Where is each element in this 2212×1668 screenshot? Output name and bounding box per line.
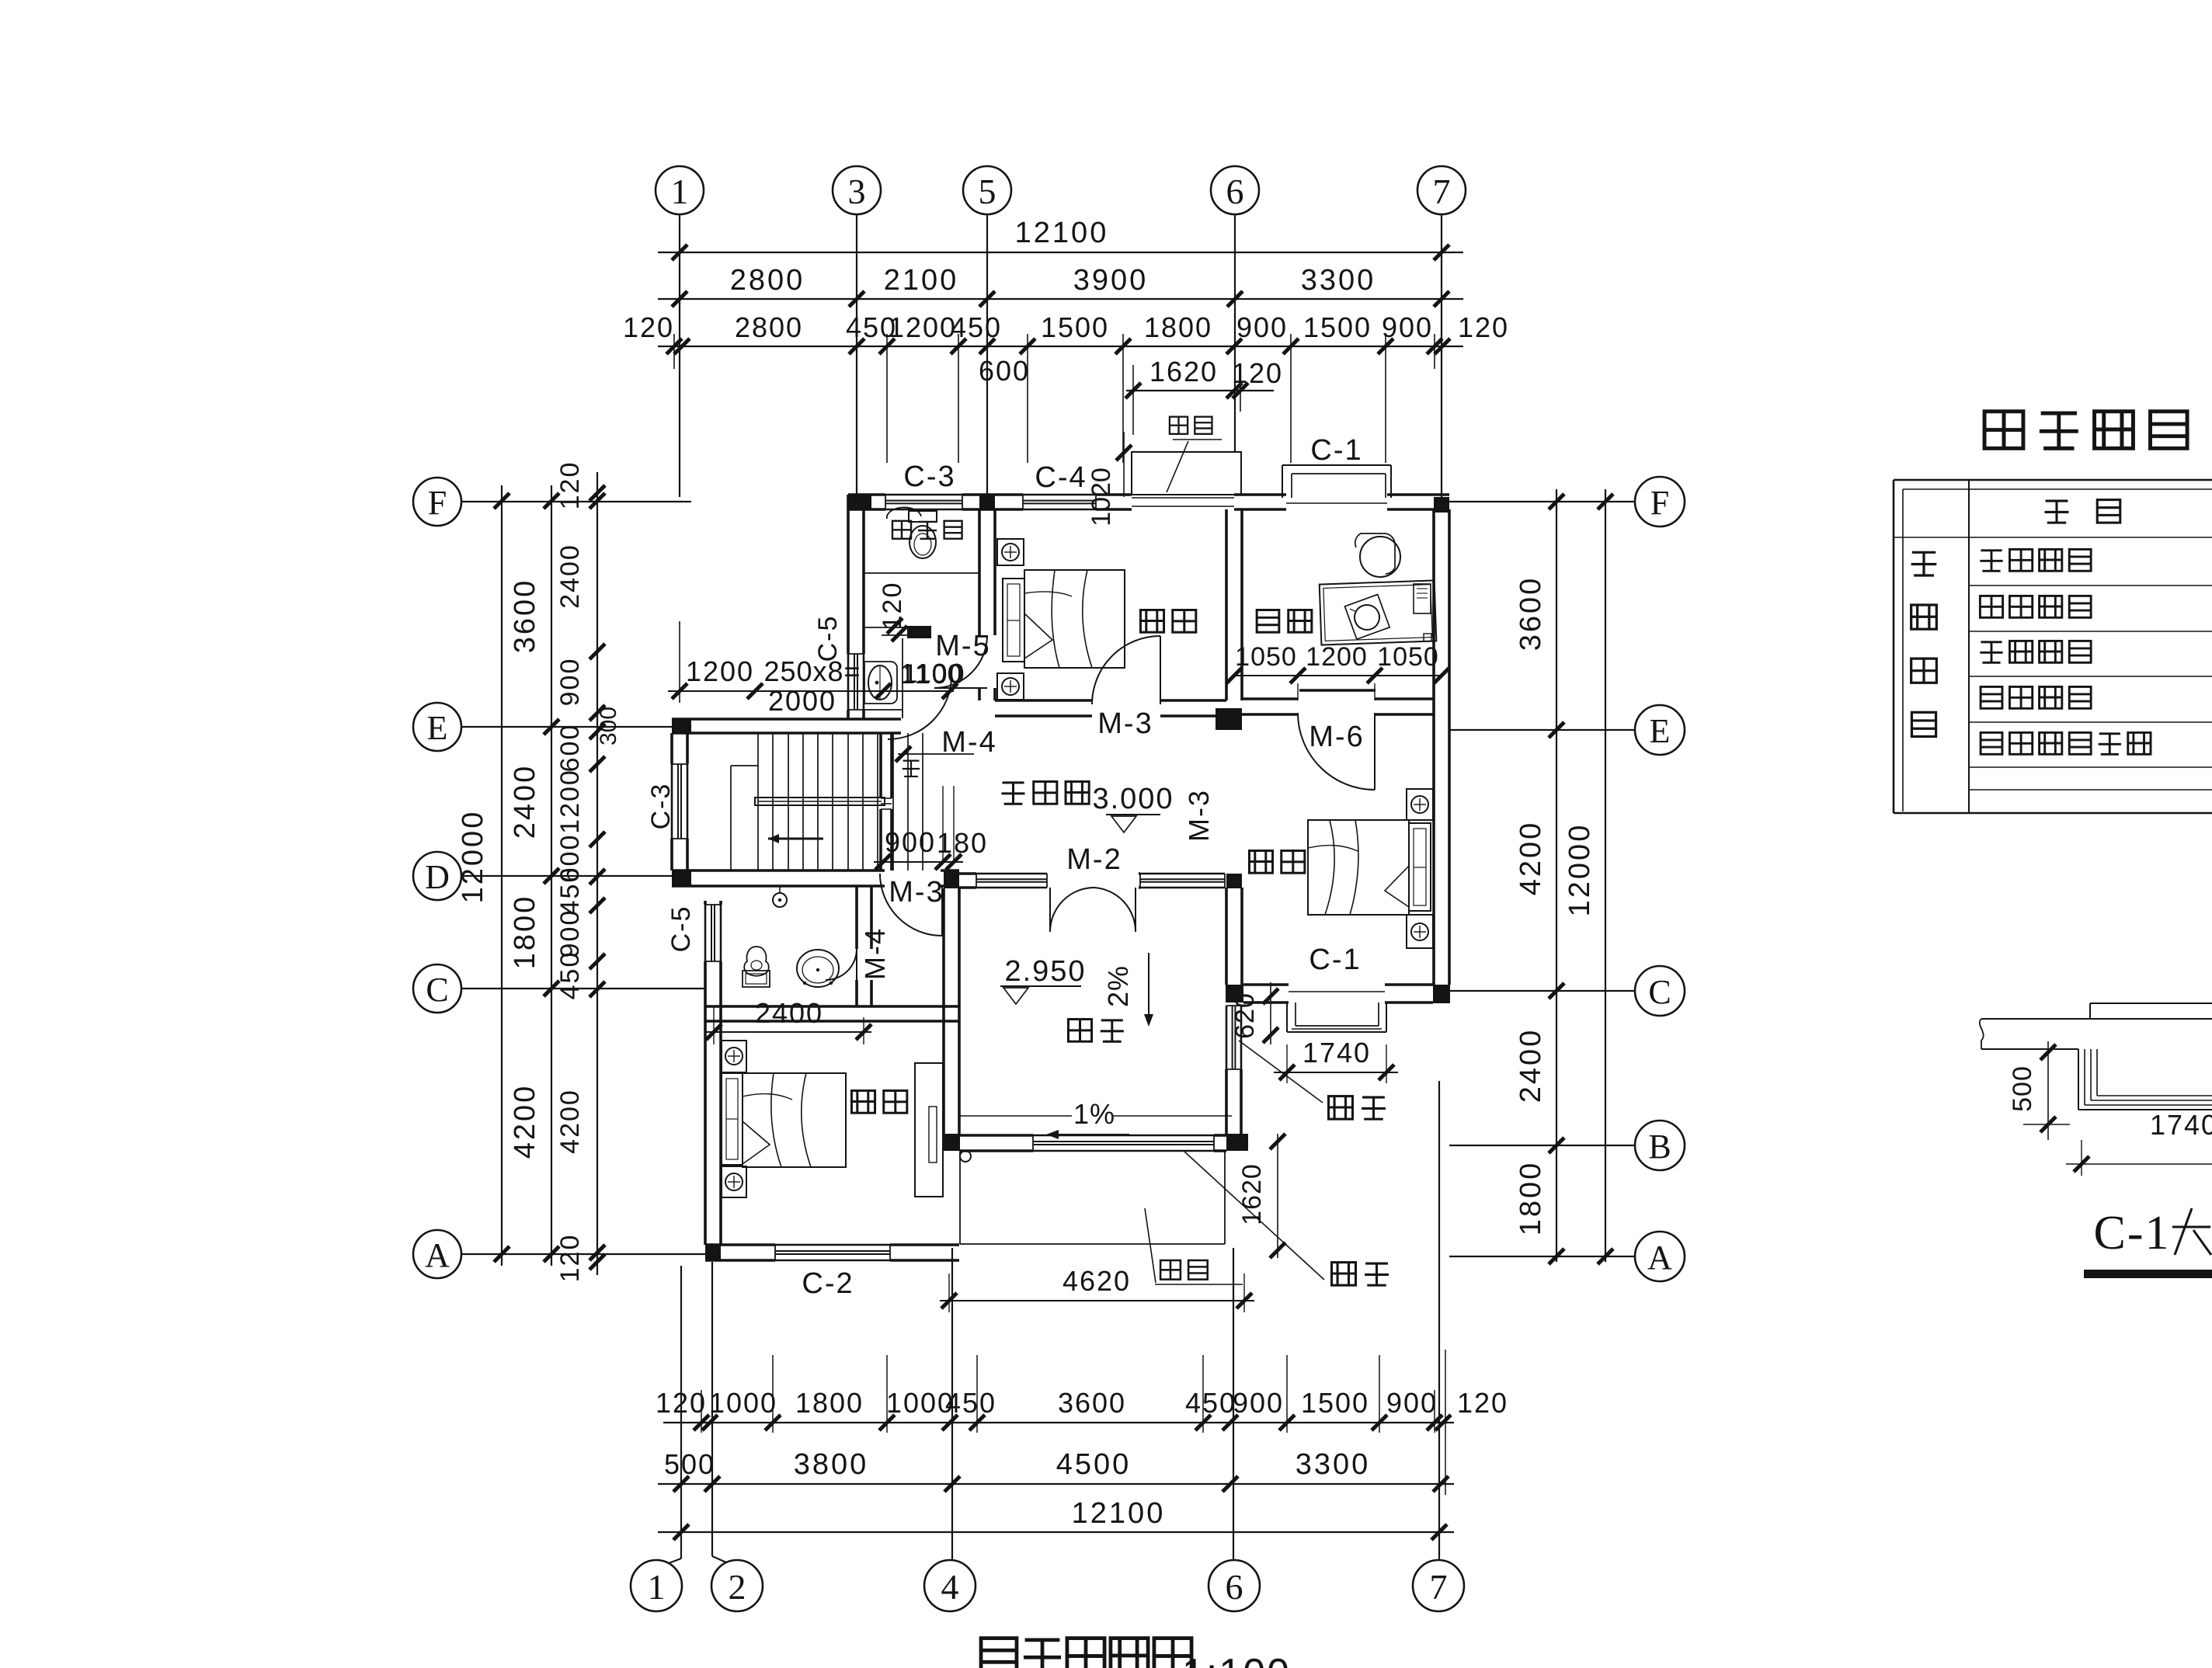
svg-text:2.950: 2.950 [1004,955,1086,988]
svg-text:500: 500 [2008,1065,2037,1112]
svg-text:M-4: M-4 [941,726,996,759]
svg-text:2%: 2% [1102,965,1134,1007]
svg-text:A: A [1647,1239,1672,1277]
top extension verticals [886,334,888,463]
svg-text:M-2: M-2 [1066,843,1122,876]
table left header jianzhubiaozhun vertical [1911,552,1937,575]
svg-text:120: 120 [555,461,585,510]
bedside tables bedroom1 [997,539,1024,565]
svg-text:E: E [1650,712,1671,750]
grid circle 6 top [1211,166,1259,214]
svg-text:450: 450 [555,867,585,916]
svg-text:1:100: 1:100 [1182,1651,1291,1668]
stairs direction arrow [768,838,823,840]
svg-text:1620: 1620 [1149,356,1218,387]
grid circle 2 bottom [711,1560,763,1611]
wall right (axis 7) [1432,509,1435,985]
bedside tables bedroom2 [1407,789,1433,820]
wall study south with M-6 opening [1242,697,1298,700]
bottom short extension verticals [772,1355,774,1433]
table row lines [1969,537,2212,538]
svg-text:300: 300 [596,707,621,745]
door M-2 double french [1049,888,1051,932]
svg-text:A: A [425,1236,450,1274]
door M-6 bedroom2 [1298,713,1375,790]
dim line bottom mid spans [658,1483,1454,1485]
svg-text:M-6: M-6 [1309,721,1364,753]
svg-text:C-3: C-3 [646,783,676,830]
label weishengjian bathroom1 [892,521,911,539]
grid circle F right [1635,477,1685,526]
svg-text:D: D [425,858,450,896]
svg-text:620: 620 [1230,992,1260,1039]
bay window C-1 bottom [1286,1003,1288,1032]
railing label 1 with leader [1239,1041,1323,1103]
sink bathroom2 [743,971,770,987]
label woshi bedroom2 [1249,851,1272,874]
svg-text:1050: 1050 [1377,642,1439,672]
grid leader D [461,875,672,877]
grid leader C [461,988,705,989]
window C-3 top [885,494,962,496]
wall axis6 between bedroom and study [1225,509,1228,700]
door M-4 hallway small [856,949,857,980]
railing label 2 with leader [1184,1152,1324,1280]
canopy bottom outline [959,1151,961,1244]
svg-text:C-1: C-1 [1309,943,1361,976]
detail title da char [2172,1226,2210,1228]
label woshi bedroom3 [851,1091,875,1114]
dim line top axis spans [658,298,1463,300]
wall bedroom3 south (A row) [705,1243,775,1246]
dim 1020 vertical [1123,432,1125,497]
svg-text:250x8=: 250x8= [763,655,861,687]
svg-text:600: 600 [555,724,585,773]
detail break squiggle [1980,1019,1984,1049]
dim 620 vertical [1270,982,1271,1044]
svg-text:F: F [428,484,447,522]
basin bathroom2 [797,950,839,987]
svg-text:1500: 1500 [1301,1387,1369,1419]
detail title underline [2084,1270,2212,1278]
desk study [1320,580,1437,645]
svg-text:120: 120 [623,311,674,343]
detail window frame nest [2078,1049,2079,1110]
wall bathroom2 south / bedroom3 north [705,1005,959,1008]
wall bedroom1 south [995,699,1092,702]
grid circle E right [1635,705,1685,755]
svg-text:2400: 2400 [1515,1028,1547,1103]
grid leader E right [1449,729,1635,731]
svg-text:2400: 2400 [755,997,823,1029]
window C-2 [775,1244,890,1246]
svg-text:2400: 2400 [509,764,541,839]
svg-text:4500: 4500 [1056,1448,1132,1481]
canopy label bottom [1160,1260,1181,1280]
svg-text:4200: 4200 [555,1089,585,1154]
svg-text:2800: 2800 [730,264,805,297]
dim line left 12000 [501,485,503,1266]
window C-4 top [1023,494,1096,496]
wall terrace west / bedroom3 east [942,888,945,1134]
svg-text:180: 180 [937,827,988,859]
grid line 5 [986,214,988,495]
svg-text:1800: 1800 [1144,311,1212,343]
flower pot on desk [1344,595,1389,640]
table row shiyongmianjixishu [1981,732,2002,754]
svg-text:3900: 3900 [1073,264,1149,297]
svg-text:3600: 3600 [509,579,541,654]
svg-text:1740: 1740 [2150,1109,2212,1141]
washbasin vestibule [864,662,897,704]
svg-text:3600: 3600 [1058,1387,1126,1419]
svg-text:4: 4 [941,1567,959,1607]
table row jianzhumianji [1980,642,2002,663]
svg-text:2100: 2100 [884,264,959,297]
table row shiyongmianji [1981,686,2002,708]
svg-text:3: 3 [848,172,866,211]
dim 900 180 near M-3 [874,861,963,863]
grid line 6 [1234,214,1236,452]
label woshi bedroom1 [1140,610,1163,633]
grid leader E [461,726,672,728]
svg-text:3800: 3800 [794,1448,869,1481]
svg-text:4620: 4620 [1063,1265,1131,1297]
dim line top 12100 [658,252,1463,253]
svg-text:C-5: C-5 [666,905,696,953]
grid circle D left [413,852,461,900]
wall terrace south (B row) [960,1134,1033,1137]
svg-text:900: 900 [1236,311,1288,343]
svg-text:1: 1 [671,172,689,211]
dim 1620 vertical right of terrace [1277,1134,1278,1258]
wall terrace east [1225,888,1228,985]
bay window C-1 top [1282,465,1283,498]
table row jidimianji [1980,551,2002,572]
grid circle 6 bottom [1209,1560,1260,1611]
svg-text:120: 120 [555,1234,585,1283]
svg-text:1200: 1200 [555,769,585,834]
dim line right axis spans [1556,489,1557,1262]
wall bedroom2 south (C row) with bay C-1 [1243,983,1289,986]
svg-text:C-1: C-1 [2094,1207,2171,1260]
window C-5 lower left [704,905,707,961]
svg-text:120: 120 [1458,311,1509,343]
svg-text:M-3: M-3 [1097,707,1153,740]
wall partition living west [879,733,882,798]
dim line right 12000 [1605,489,1606,1262]
label xia (down) [903,761,920,777]
grid leader A [461,1253,705,1255]
dim line canopy 1620 [1126,390,1274,391]
svg-text:900: 900 [1233,1387,1284,1419]
svg-text:M-3: M-3 [1183,789,1215,842]
svg-text:4200: 4200 [1515,821,1547,896]
svg-text:1%: 1% [1073,1098,1115,1130]
grid leader F [461,501,691,502]
grid circle F left [413,478,461,526]
svg-text:500: 500 [664,1448,715,1480]
bathroom1 partition lines [864,572,979,574]
wall top F row [848,493,885,496]
desk items [1414,584,1431,613]
grid circle 4 bottom [924,1560,976,1611]
svg-text:1800: 1800 [795,1387,864,1419]
svg-text:450: 450 [945,1387,996,1419]
svg-text:1000: 1000 [886,1387,955,1419]
svg-text:900: 900 [885,826,936,858]
svg-text:12100: 12100 [1072,1497,1166,1530]
toilet bathroom1 [909,511,937,522]
svg-text:7: 7 [1433,172,1451,211]
bottom grid verticals [680,1266,682,1559]
grid circle 1 bottom [631,1560,682,1611]
wall stair south (D row) with M-3 opening [672,869,885,872]
svg-text:12100: 12100 [1015,217,1109,249]
svg-text:1800: 1800 [1515,1161,1547,1236]
grid circle A left [413,1230,461,1278]
window C-5 upper left [847,654,850,710]
svg-text:4200: 4200 [509,1084,541,1159]
label shaitai terrace [1068,1020,1091,1042]
svg-text:12000: 12000 [1563,823,1596,917]
svg-text:120: 120 [656,1387,707,1419]
dim line top detail spans [658,346,1463,347]
svg-text:1500: 1500 [1041,311,1109,343]
svg-text:900: 900 [555,658,585,707]
economic table frame [1894,479,2212,481]
svg-text:3600: 3600 [1515,576,1547,652]
svg-text:2800: 2800 [735,311,803,343]
railing terrace south [1033,1135,1214,1137]
wardrobe bedroom3 [915,1063,943,1197]
svg-text:C: C [1648,973,1671,1011]
cistern arc bathroom1 [887,507,921,519]
detail slab lines [2090,1003,2212,1004]
bedside tables bedroom3 [722,1041,746,1072]
svg-text:B: B [1648,1128,1671,1166]
wall living south (B? row) with windows and M-2 [959,872,976,875]
svg-text:3300: 3300 [1296,1448,1371,1481]
dim line left detail spans [596,472,598,1275]
svg-text:C: C [426,971,448,1009]
grid leader A right [1449,1256,1635,1257]
svg-text:7: 7 [1430,1567,1448,1607]
label shufang study [1257,610,1279,633]
title erceng pingmiantu [981,1638,1017,1668]
bed bedroom2 [1409,823,1431,911]
grid line 7 [1441,214,1442,497]
svg-text:M-3: M-3 [889,876,944,909]
svg-text:6: 6 [1226,172,1244,211]
svg-text:C-2: C-2 [802,1267,854,1300]
window above entrance [1132,497,1234,499]
dim 4620 below canopy [940,1300,1254,1301]
lintel over M-6 [1299,689,1376,692]
dim 2400 bedroom3 [705,1031,871,1033]
wall axis5 bathroom east [978,509,981,635]
grid circle C right [1635,966,1685,1016]
svg-text:120: 120 [1232,357,1283,389]
grid circle E left [413,703,461,751]
grid leader F right [1449,501,1635,502]
window terrace east [1226,1006,1228,1069]
svg-text:E: E [427,709,448,747]
svg-text:1100: 1100 [903,659,962,689]
dim 1200 250x8 2000 1100 [668,690,954,692]
rain pipe circle [960,1151,971,1162]
svg-text:1800: 1800 [509,895,541,970]
table header xiangmu [2045,501,2069,523]
svg-text:2: 2 [729,1567,746,1607]
svg-text:2000: 2000 [768,685,836,717]
svg-text:1200: 1200 [686,655,754,687]
label qijushi living [1001,783,1024,804]
grid circle A right [1635,1232,1685,1281]
dim line bottom detail spans [663,1422,1454,1423]
svg-text:3.000: 3.000 [1092,783,1174,815]
svg-text:1: 1 [648,1567,666,1607]
svg-text:900: 900 [555,909,585,958]
wall bathroom2 east [855,886,858,949]
door M-4 living entry arc [888,676,951,739]
grid line 3 [856,214,857,495]
table row zhandimianji [1980,596,2002,617]
svg-text:600: 600 [979,355,1030,387]
svg-text:5: 5 [979,172,996,211]
svg-text:2400: 2400 [555,544,585,609]
stairs risers [757,733,759,870]
table title zhuyao jingji [1984,412,2023,449]
chair study [1360,537,1400,577]
stairs handrail [755,798,885,805]
grid circle C left [413,964,461,1013]
wall left (axis 3) [847,495,850,654]
slope 1 percent [960,1115,1072,1117]
svg-text:6: 6 [1226,1567,1243,1607]
stair down label line [898,753,974,755]
grid circle 7 bottom [1413,1560,1464,1611]
door M-5 bathroom [934,635,987,688]
grid circle 1 top [656,166,704,214]
svg-text:C-4: C-4 [1035,461,1087,494]
bed bedroom3 [722,1073,743,1165]
window living south west [976,873,1047,875]
svg-text:1050: 1050 [1235,642,1297,672]
detail dim 500 [2047,1041,2049,1140]
svg-text:1620: 1620 [1237,1163,1267,1225]
canopy top box [1132,452,1241,495]
toilet bathroom2 [744,947,769,976]
svg-text:12000: 12000 [457,810,489,904]
door M-3 bedroom1 [1092,636,1160,704]
svg-text:1740: 1740 [1303,1037,1371,1069]
window C-3 left stair [671,764,673,839]
column blocks [848,495,871,510]
dim 1050 1200 1050 study [1234,675,1442,676]
svg-text:M-4: M-4 [859,927,891,980]
shower head bathroom2 [773,893,787,907]
svg-text:1500: 1500 [1303,311,1372,343]
svg-text:C-3: C-3 [903,460,955,493]
wall stair north (E row) [672,718,901,721]
svg-text:1020: 1020 [1087,467,1116,526]
grid circle B right [1635,1121,1685,1170]
svg-text:120: 120 [1457,1387,1508,1419]
grid circle 7 top [1417,166,1466,214]
grid circle 3 top [833,166,881,214]
bed bedroom1 [1003,579,1024,662]
svg-text:900: 900 [1386,1387,1438,1419]
window living south east [1140,873,1225,875]
dim line bottom 12100 [658,1531,1454,1533]
svg-text:120: 120 [878,582,907,631]
grid leader C right [1449,990,1635,992]
svg-text:900: 900 [1382,311,1433,343]
stairs lower flight edge [730,766,732,870]
svg-text:1200: 1200 [889,311,957,343]
svg-text:C-1: C-1 [1310,434,1362,467]
svg-text:3300: 3300 [1301,264,1376,297]
wall lower-left (axis2) [704,901,707,905]
svg-text:1000: 1000 [709,1387,777,1419]
grid circle 5 top [963,166,1011,214]
grid leader B right [1449,1145,1635,1146]
label yupeng top [1170,417,1188,434]
svg-text:F: F [1650,484,1669,522]
dim 1740 bedroom2 bay [1274,1072,1398,1073]
svg-text:1200: 1200 [1306,642,1368,672]
vestibule floor line [864,709,903,711]
wall stairwell west (axis1) [670,733,673,764]
svg-text:450: 450 [1185,1387,1236,1419]
dim line left axis spans [551,485,552,1266]
svg-text:450: 450 [555,951,585,1000]
grid line 1 [679,214,680,497]
door M-3 stair hall [880,874,942,936]
